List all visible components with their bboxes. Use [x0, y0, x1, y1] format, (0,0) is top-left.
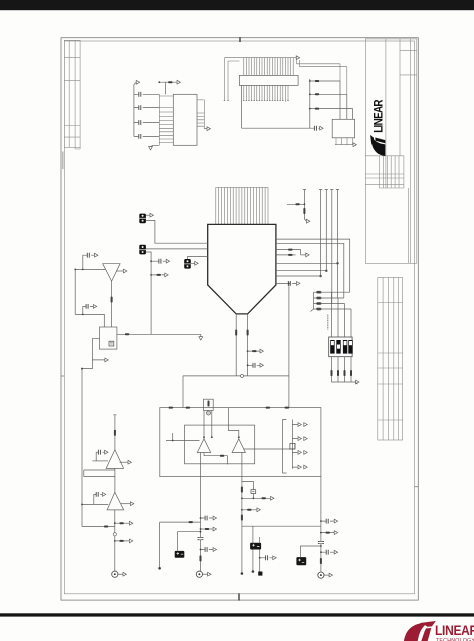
A1 output rail to terminal: [200, 453, 202, 572]
op-amp A3: [106, 450, 124, 469]
rail resistor: [200, 555, 202, 561]
T1 lower tap cap arrow: [276, 281, 300, 376]
electrolytic C12: [296, 545, 322, 565]
electrolytic C10: [175, 531, 202, 558]
rotated LT LINEAR logo (black) in sidebar: [373, 99, 386, 132]
rail bead arrow: [241, 508, 260, 512]
left border tick: [61, 152, 64, 377]
A4 output arrow: [121, 502, 134, 506]
terminal E2: [196, 571, 211, 577]
C11 cap arrow: [259, 555, 276, 560]
A2 output wire: [244, 443, 295, 449]
left long rail: [81, 369, 83, 527]
U3 output long wire: [117, 333, 203, 340]
bias network vertical with resistor: [303, 190, 310, 224]
T1 neck winding wires: [235, 314, 248, 376]
feedback component above box: [204, 399, 214, 415]
jack J3: [139, 245, 207, 334]
capacitor C3: [134, 120, 159, 125]
rail bead arrow tap2: [114, 539, 133, 543]
rail bead arrow tap1: [114, 521, 133, 525]
neck tap cap arrow: [247, 363, 264, 368]
A3 supply cap arrow: [96, 450, 108, 461]
connector J1 top-right arrow: [296, 56, 299, 60]
A2 rail down: [241, 453, 244, 575]
right rail series cap: [318, 542, 324, 544]
rail cap arrow tap: [200, 516, 217, 521]
DIP switch S1: [329, 337, 353, 357]
electrolytic C11: [250, 526, 262, 575]
bottom black rule: [0, 613, 474, 616]
IC U1: [173, 94, 197, 145]
transformer T1 body (funnel): [208, 224, 276, 314]
amplifier inner box: [185, 425, 255, 464]
rail tap bead arrow: [241, 496, 274, 500]
A2 output network: [242, 482, 256, 499]
digital bus verticals: [319, 190, 339, 304]
U2 output arrow: [116, 269, 127, 273]
SER PAR label: [327, 315, 329, 330]
header pins column: [282, 420, 307, 474]
U3 feedback loop: [81, 339, 108, 370]
output stage box: [160, 408, 321, 477]
cap bank left rail: [133, 94, 135, 136]
rail bead arrow tap: [200, 527, 217, 531]
T1 aux loop with beads: [276, 249, 309, 257]
DIP pulldown resistors: [331, 357, 360, 385]
U5 top feed wires: [340, 81, 353, 119]
A4 output rail: [114, 510, 116, 574]
U5 upper routing: [297, 58, 347, 95]
op-amp A2: [232, 439, 245, 453]
transformer T1 top pin comb: [216, 187, 268, 224]
U1 output arrow: [204, 127, 210, 131]
connector J1 top pin comb: [242, 58, 296, 76]
A2 apex feed: [228, 408, 239, 439]
A1 input wire: [166, 433, 205, 441]
J3 bead arrow: [150, 273, 168, 277]
U2 to U3 wire with resistor: [111, 281, 113, 327]
op-amp U2: [103, 264, 120, 281]
connector left return pins: [224, 58, 242, 101]
right rail bead arrow tap2: [320, 531, 338, 535]
right rail cap arrow tap3: [320, 550, 338, 555]
svg-text:LINEAR: LINEAR: [435, 622, 474, 638]
U2 input wire: [74, 269, 105, 271]
U1 bottom stub: [149, 145, 160, 150]
U2 supply cap arrow: [83, 253, 98, 270]
sidebar fine table below logo: [365, 156, 404, 188]
beads on box top edge: [169, 407, 290, 409]
connector ground loop wire: [242, 79, 310, 128]
neck tap bead arrow: [247, 349, 264, 353]
diode D2 row: [309, 93, 347, 95]
A3 input wire: [92, 460, 108, 462]
diode D3 row: [309, 108, 353, 110]
bottom border center tick: [238, 593, 240, 600]
left revision strip: [64, 40, 80, 149]
interstage wire with bead: [204, 453, 228, 465]
U5 bottom pins: [335, 138, 356, 147]
left reference rail: [75, 269, 104, 327]
A3 output arrow: [120, 460, 132, 464]
primary distribution wire: [183, 374, 289, 407]
bottom-right LINEAR TECHNOLOGY logo (red): [404, 621, 474, 641]
bias bead wire: [287, 203, 305, 205]
top black border bar: [0, 0, 474, 10]
T1 secondary taps to bus: [276, 239, 350, 298]
A3 ground loop: [84, 468, 115, 492]
capacitor C2: [134, 105, 159, 110]
ground stub wire: [158, 521, 200, 570]
top border center tick: [239, 37, 241, 42]
sheet inner border: [64, 41, 414, 594]
right rail cap arrow tap1: [320, 519, 338, 524]
connector J1 bottom pin comb: [243, 85, 289, 101]
terminal E3: [318, 572, 333, 578]
A4 input wire: [81, 504, 108, 506]
A3 bias feed with resistor: [113, 415, 116, 450]
sheet outer border: [61, 38, 418, 600]
right output rail: [320, 477, 322, 575]
jack J4: [184, 257, 208, 269]
capacitor C1: [134, 92, 159, 97]
rail junction circle: [113, 533, 116, 536]
diode D1 row: [309, 80, 340, 82]
IC U3: [100, 327, 117, 349]
mid ground bus: [242, 525, 321, 527]
U1 input bus wire: [159, 94, 173, 145]
rail cap arrow tap lower: [200, 547, 217, 552]
connector J1 body: [239, 75, 298, 85]
sidebar lower tall table: [378, 277, 403, 440]
loop capacitor and arrow: [310, 126, 323, 131]
sidebar LT glyph: [370, 135, 385, 156]
right border tick: [415, 486, 419, 488]
series capacitor in rail: [198, 538, 204, 540]
terminal E1: [112, 571, 127, 577]
pullup rail taps: [311, 276, 352, 337]
U1 right-side wire: [197, 100, 204, 129]
lower supply cap arrow: [83, 304, 97, 314]
A4 supply cap arrow: [94, 492, 106, 504]
op-amp A4: [107, 492, 124, 510]
jack J2: [139, 213, 207, 243]
capacitor C4: [134, 134, 159, 139]
A1 apex feed: [204, 411, 213, 439]
IC U5 regulator: [332, 119, 354, 138]
J3 bypass cap arrow: [150, 259, 169, 264]
svg-text:LINEAR: LINEAR: [373, 99, 386, 132]
op-amp A1: [197, 439, 210, 453]
left feed bead wire: [82, 526, 115, 528]
right title-block sidebar: [365, 39, 417, 263]
U1 top supply wire with bead: [158, 80, 180, 94]
power arrow above rail: [134, 80, 140, 94]
